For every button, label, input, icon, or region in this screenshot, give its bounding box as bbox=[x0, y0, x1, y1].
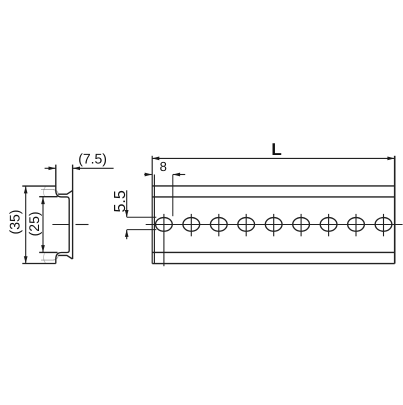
svg-text:(25): (25) bbox=[26, 211, 42, 236]
top tip fold arc bbox=[43, 187, 45, 197]
rail top edge bbox=[152, 185, 394, 187]
hole 8 bbox=[348, 218, 365, 232]
flange top inner face (thin) bbox=[41, 189, 54, 191]
hole 2 bbox=[183, 218, 200, 232]
cross-section center line (outer tick) bbox=[76, 224, 89, 226]
rail bottom bend line bbox=[152, 251, 394, 253]
5.5 bottom extension line bbox=[127, 229, 157, 231]
bottom flange inner face (thin) bbox=[41, 259, 54, 261]
(35) bottom arrow bbox=[24, 256, 28, 263]
8 dimension line right tail bbox=[173, 174, 185, 176]
(7.5) right arrow bbox=[73, 166, 80, 170]
hole 3 bbox=[210, 218, 227, 232]
svg-text:5.5: 5.5 bbox=[112, 190, 129, 212]
hole 6 bbox=[293, 218, 310, 232]
(7.5) dimension line right part bbox=[73, 167, 114, 169]
(25) bottom arrow bbox=[41, 245, 45, 252]
bottom tip fold arc bbox=[43, 253, 45, 263]
rail bottom edge bbox=[152, 263, 394, 265]
top lip inner surface + diagonal to wall outer bbox=[58, 191, 72, 195]
flange top face + (35) top extension line bbox=[22, 185, 56, 187]
wall outer face + (7.5) right extension line bbox=[72, 165, 74, 259]
flange bottom face + (35) bottom extension line bbox=[22, 263, 56, 265]
5.5 top extension line bbox=[127, 216, 157, 218]
5.5 bottom arrow bbox=[125, 230, 129, 237]
hole 7 vertical center line bbox=[328, 214, 330, 236]
hole 9 vertical center line bbox=[383, 214, 385, 236]
5.5 top arrow bbox=[125, 210, 129, 217]
svg-text:(35): (35) bbox=[7, 210, 23, 235]
8 right extension line bbox=[172, 175, 174, 217]
L right arrow bbox=[387, 157, 394, 161]
rail left end edge bbox=[153, 175, 155, 264]
(25) top extension line / fold edge bbox=[39, 196, 57, 198]
L left arrow bbox=[152, 157, 159, 161]
hole 7 bbox=[320, 218, 337, 232]
(25) bottom extension line / fold edge bbox=[39, 251, 57, 253]
5.5 dimension line upper bbox=[126, 190, 128, 217]
L dimension line bbox=[152, 157, 395, 159]
(35) top arrow bbox=[24, 186, 28, 193]
hole 4 bbox=[238, 218, 255, 232]
hole 6 vertical center line bbox=[300, 214, 302, 236]
hole 5 vertical center line bbox=[273, 214, 275, 236]
hole 9 bbox=[375, 218, 392, 232]
5.5 dimension line lower bbox=[126, 230, 128, 239]
svg-text:L: L bbox=[271, 140, 281, 159]
8 left arrow bbox=[145, 173, 152, 177]
(25) top arrow bbox=[41, 197, 45, 204]
svg-text:(7.5): (7.5) bbox=[78, 150, 107, 166]
hole 8 vertical center line bbox=[355, 214, 357, 236]
(25) dimension line bbox=[42, 197, 44, 252]
rail top bend line bbox=[152, 196, 394, 198]
8 dimension line left tail bbox=[144, 174, 152, 176]
cross-section center line (inner) bbox=[52, 224, 69, 226]
holes horizontal center line bbox=[146, 224, 403, 226]
(7.5) dimension line left part bbox=[45, 167, 56, 169]
hole 4 vertical center line bbox=[245, 214, 247, 236]
left extension line bbox=[151, 156, 153, 264]
hole 2 vertical center line bbox=[190, 214, 192, 236]
profile outer: (7.5) left ext, top shoulder, top lip outer, wall inner, bottom lip, bottom shoulder bbox=[56, 165, 69, 264]
svg-text:8: 8 bbox=[160, 159, 167, 174]
hole 1 vertical center line (long) bbox=[163, 214, 165, 266]
hole 5 bbox=[265, 218, 282, 232]
hole 1 bbox=[156, 218, 173, 232]
hole 3 vertical center line bbox=[218, 214, 220, 236]
8 right arrow bbox=[173, 173, 180, 177]
bottom inner shoulder arc (thin) bbox=[53, 256, 58, 261]
rail right end edge bbox=[394, 156, 396, 264]
(35) dimension line bbox=[25, 186, 27, 263]
top inner shoulder arc (thin) bbox=[53, 190, 58, 195]
(7.5) left arrow bbox=[49, 166, 56, 170]
bottom diagonal + bottom lip bottom surface bbox=[58, 255, 72, 259]
